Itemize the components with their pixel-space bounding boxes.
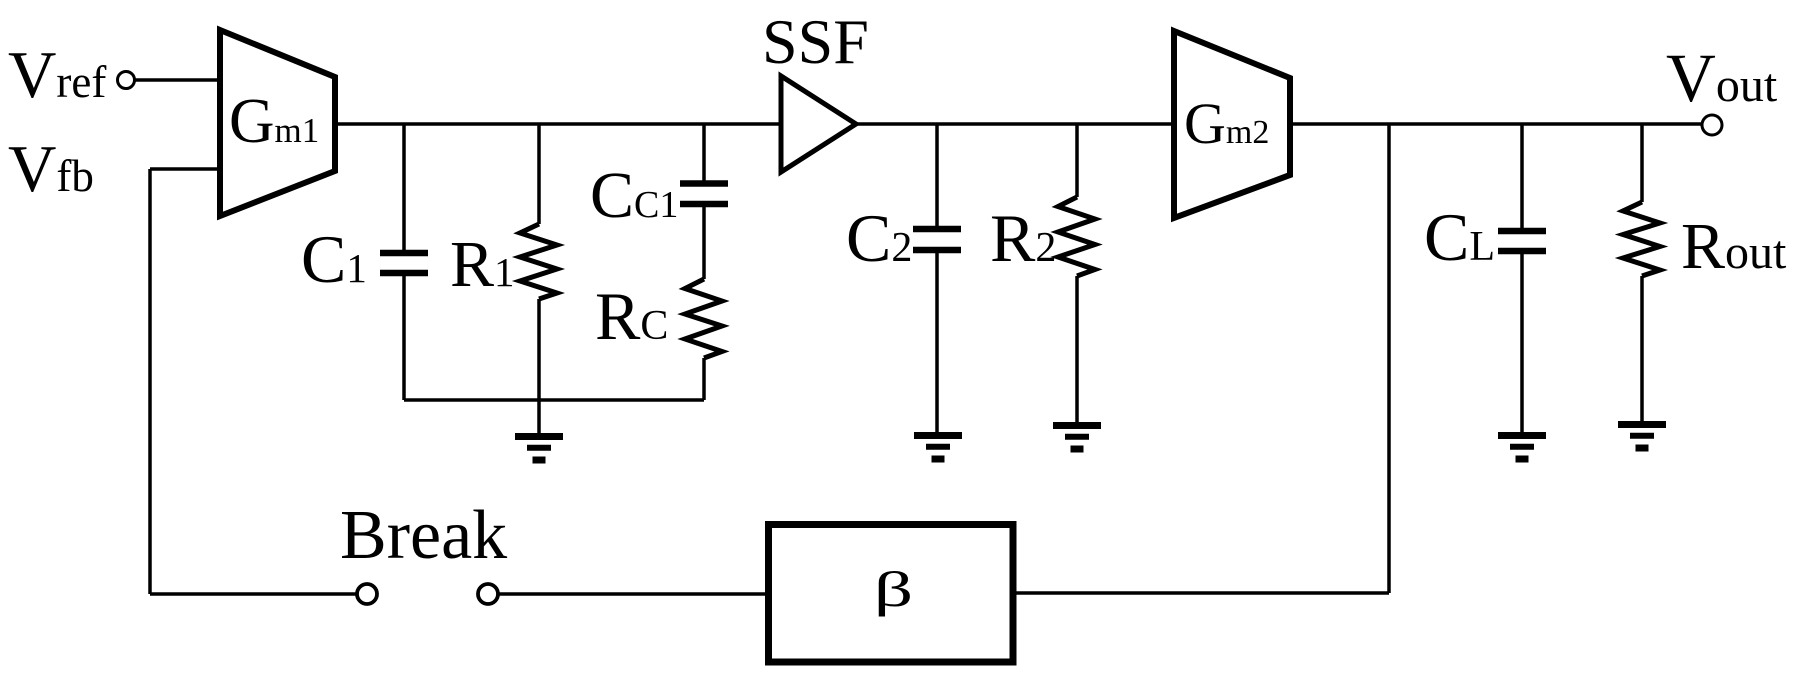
svg-text:C2: C2: [846, 200, 912, 276]
wire C1 bottom drop: [402, 275, 406, 400]
wire Vref to Gm1: [135, 78, 222, 82]
resistor Rout: [1623, 202, 1660, 276]
buffer SSF: [781, 76, 856, 172]
label Vref: [8, 38, 106, 112]
resistor R1: [520, 224, 557, 299]
wire CL bottom drop: [1520, 253, 1524, 432]
capacitor C2: [913, 229, 961, 250]
op-amp Gm1: [220, 30, 335, 216]
wire Rout bottom drop: [1640, 276, 1644, 421]
wire R2 bottom drop: [1075, 276, 1079, 422]
label R2: [990, 200, 1056, 276]
terminal break left: [357, 584, 377, 604]
label Rc: [595, 278, 668, 354]
wire rail Gm1 to SSF: [335, 122, 783, 126]
wire to break switch left: [150, 592, 357, 596]
label beta: [874, 562, 913, 617]
ground below C2: [914, 436, 962, 460]
capacitor C1: [380, 253, 428, 273]
label Gm2: [1184, 91, 1269, 156]
terminal Vref: [118, 72, 135, 89]
svg-text:R1: R1: [450, 228, 515, 301]
terminal break right: [478, 584, 498, 604]
wire break right to beta box: [498, 592, 769, 596]
resistor Rc: [685, 279, 722, 358]
terminal Vout: [1702, 115, 1722, 135]
svg-text:β: β: [874, 562, 913, 617]
op-amp Gm2: [1174, 31, 1290, 218]
wire R1 top drop: [537, 124, 541, 224]
label Break: [340, 497, 507, 574]
wire Rc bottom drop: [702, 358, 706, 400]
label Vout: [1666, 40, 1778, 116]
svg-text:Vfb: Vfb: [8, 132, 94, 206]
wire Cc1 top drop: [702, 124, 706, 181]
label SSF: [762, 6, 869, 77]
wire C2 top drop: [935, 124, 939, 227]
svg-text:Rout: Rout: [1681, 210, 1787, 283]
wire R1 bottom drop: [537, 299, 541, 401]
ground below R1: [515, 437, 563, 461]
svg-text:Break: Break: [340, 497, 507, 574]
svg-text:SSF: SSF: [762, 6, 869, 77]
ground below R2: [1053, 426, 1101, 450]
ground below CL: [1498, 436, 1546, 460]
wire rail Gm2 to Vout: [1290, 122, 1702, 126]
label C2: [846, 200, 912, 276]
svg-text:R2: R2: [990, 200, 1056, 276]
svg-text:Vref: Vref: [8, 38, 106, 112]
wire beta to feedback vertical: [1013, 591, 1389, 595]
svg-text:Vout: Vout: [1666, 40, 1778, 116]
resistor R2: [1058, 197, 1095, 276]
wire bottom rail C1-R1-Rc: [404, 398, 704, 402]
svg-text:CC1: CC1: [590, 159, 678, 232]
wire R2 top drop: [1075, 124, 1079, 197]
label C1: [301, 221, 367, 297]
label Vfb: [8, 132, 94, 206]
svg-text:CL: CL: [1424, 199, 1495, 275]
wire C1 top drop: [402, 124, 406, 251]
wire ground stem below R1: [537, 400, 541, 433]
ground below Rout: [1618, 425, 1666, 449]
wire Cc1 to Rc: [702, 206, 706, 279]
wire Vfb vertical feedback left: [148, 169, 152, 594]
wire Vfb horizontal into Gm1: [150, 167, 222, 171]
label Gm1: [229, 86, 319, 156]
label Cc1: [590, 159, 678, 232]
wire C2 bottom drop: [935, 252, 939, 432]
block beta: [769, 525, 1014, 663]
wire feedback vertical right: [1387, 124, 1391, 593]
label CL: [1424, 199, 1495, 275]
wire CL top drop: [1520, 124, 1524, 229]
svg-text:RC: RC: [595, 278, 668, 354]
label Rout: [1681, 210, 1787, 283]
label R1: [450, 228, 515, 301]
capacitor CL: [1498, 231, 1546, 251]
wire Rout top drop: [1640, 124, 1644, 202]
wire rail SSF to Gm2: [856, 122, 1176, 126]
svg-text:C1: C1: [301, 221, 367, 297]
capacitor Cc1: [680, 184, 728, 205]
